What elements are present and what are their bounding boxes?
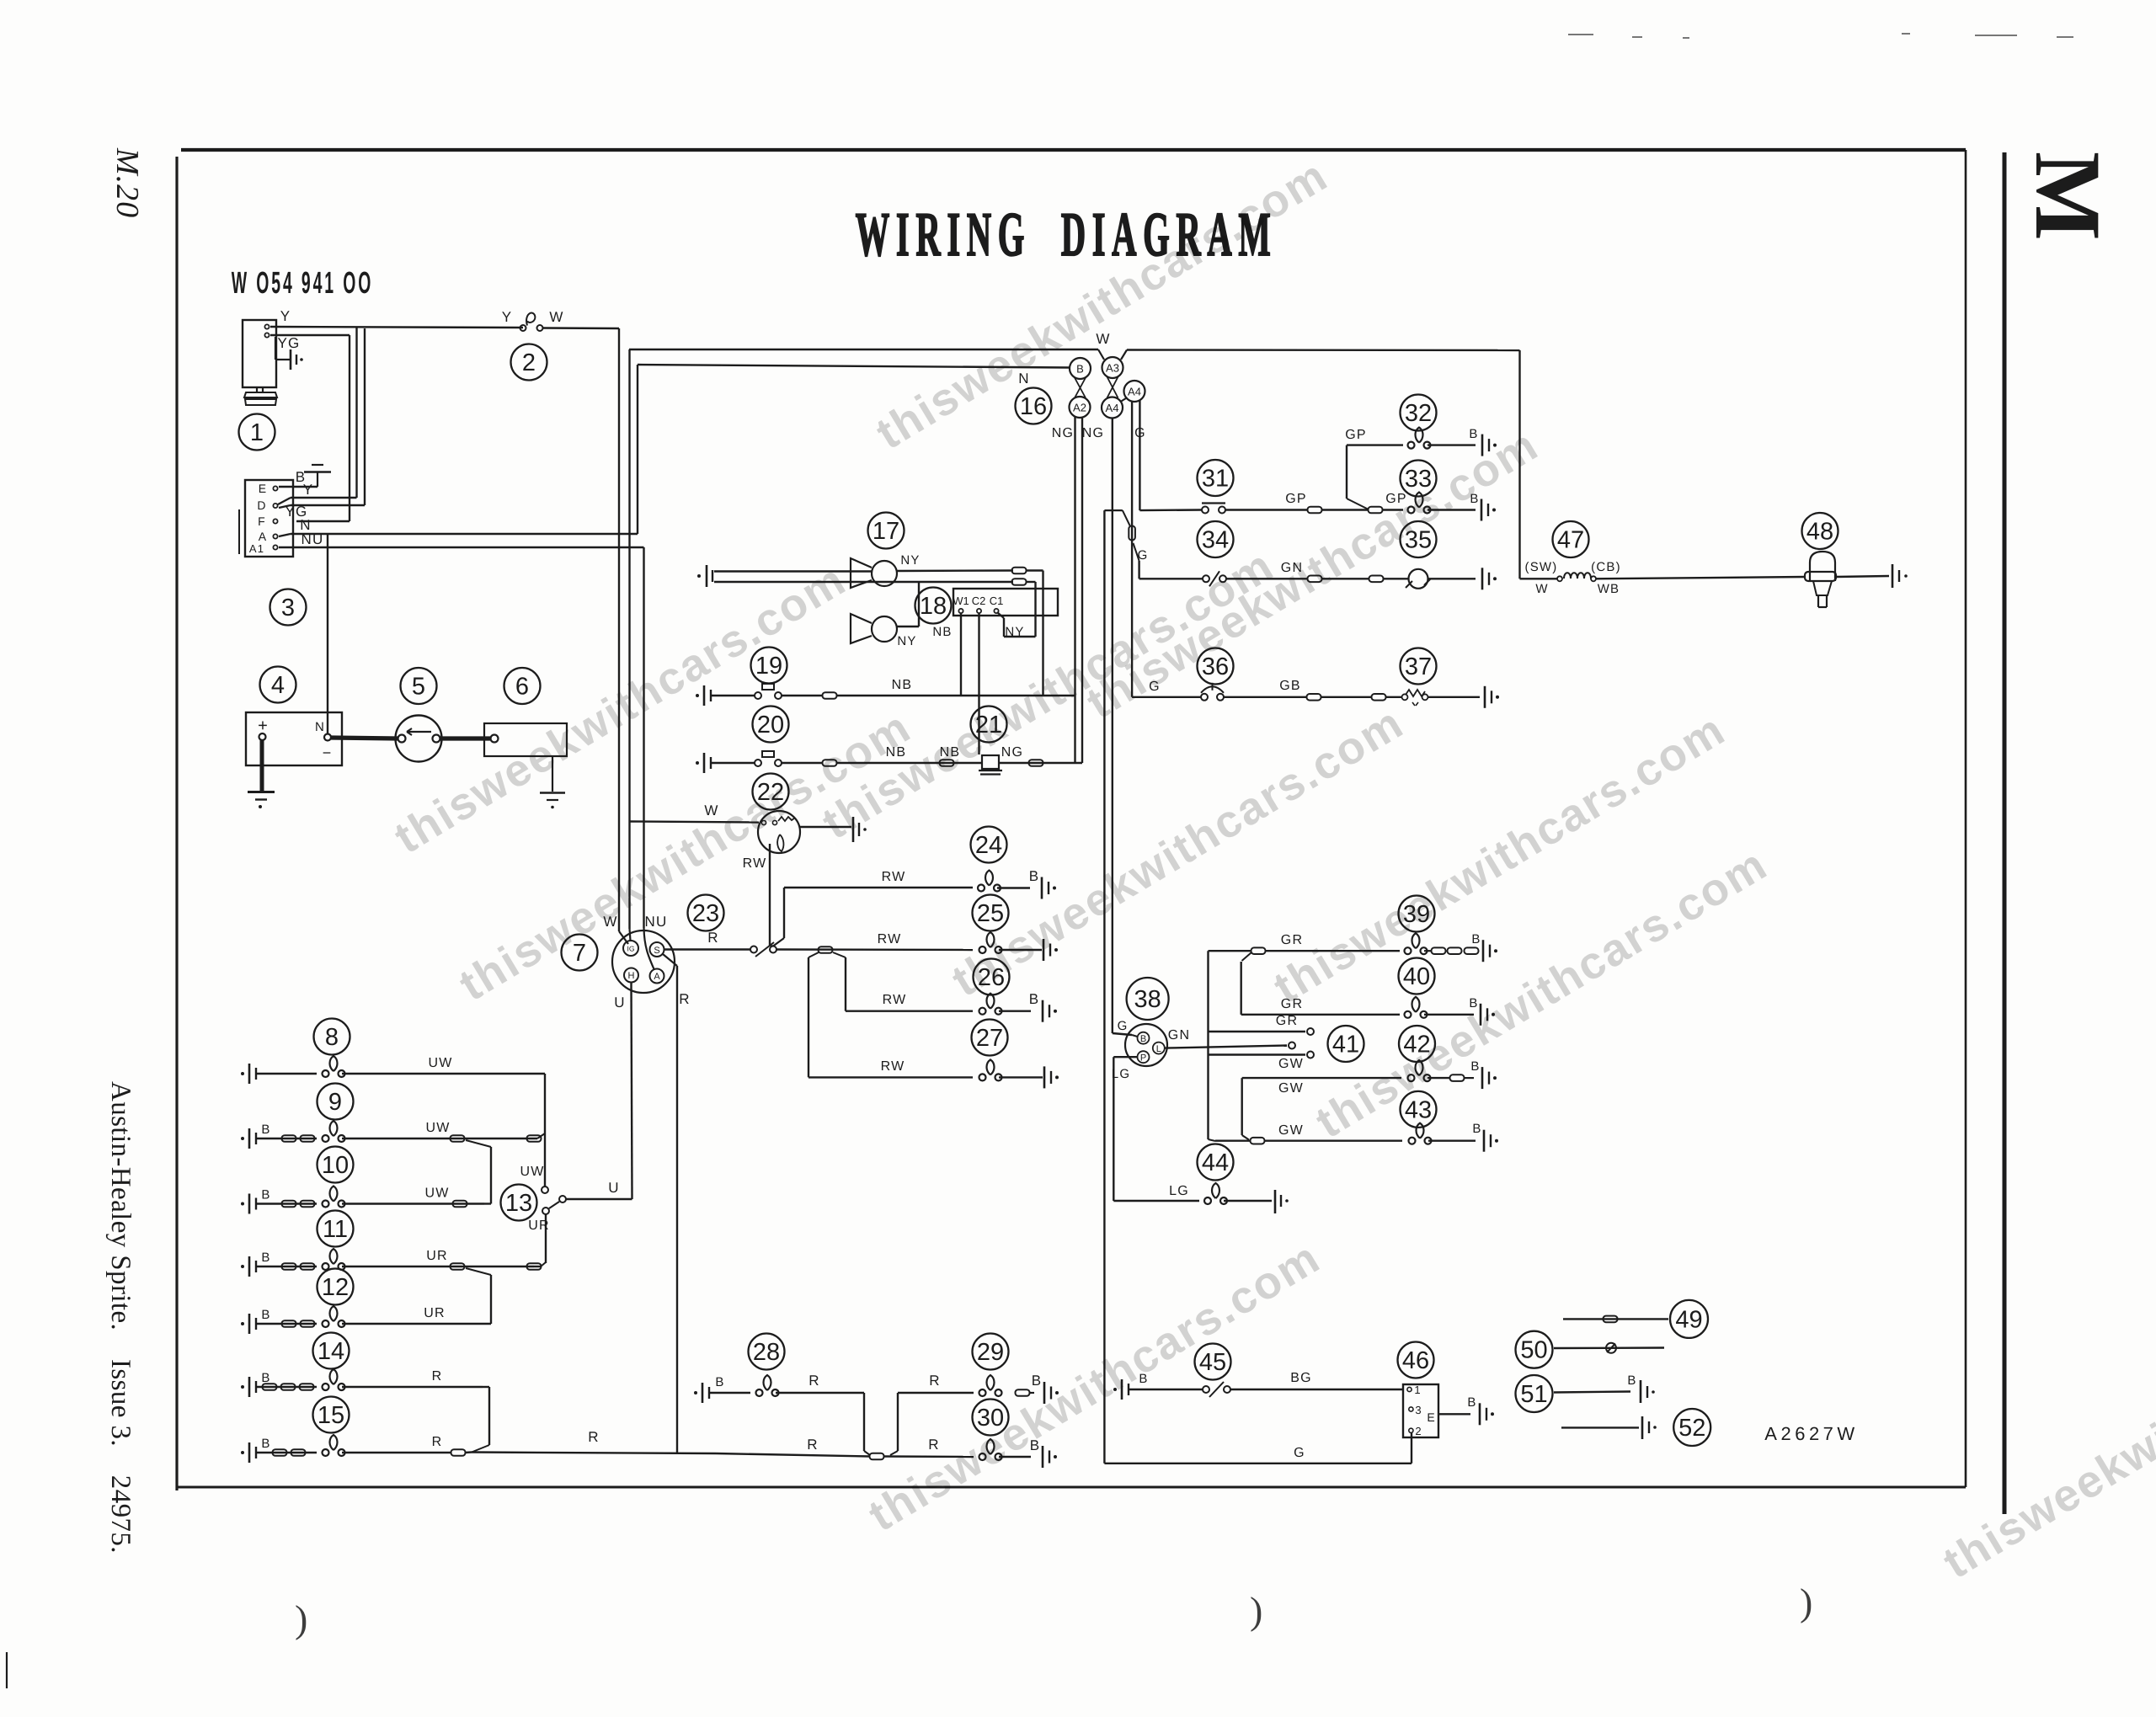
svg-text:34: 34	[1202, 527, 1229, 554]
svg-text:31: 31	[1202, 466, 1229, 493]
svg-text:B: B	[1032, 1373, 1043, 1389]
svg-text:NB: NB	[932, 625, 952, 639]
svg-text:Y: Y	[280, 308, 291, 324]
svg-text:A1: A1	[249, 542, 264, 555]
svg-text:UW: UW	[428, 1056, 452, 1070]
svg-text:19: 19	[755, 653, 782, 680]
svg-text:P: P	[1140, 1053, 1146, 1064]
svg-text:43: 43	[1405, 1096, 1432, 1123]
svg-text:RW: RW	[882, 870, 906, 884]
svg-text:16: 16	[1020, 393, 1047, 420]
svg-text:B: B	[261, 1250, 270, 1265]
svg-text:YG: YG	[278, 335, 301, 351]
svg-text:RW: RW	[883, 993, 907, 1007]
svg-text:B: B	[1627, 1373, 1636, 1388]
svg-text:2: 2	[1415, 1425, 1421, 1437]
svg-text:44: 44	[1202, 1149, 1229, 1176]
svg-text:L: L	[1156, 1044, 1161, 1054]
svg-text:B: B	[1471, 932, 1481, 946]
svg-text:B: B	[261, 1308, 270, 1322]
svg-text:R: R	[807, 1437, 818, 1453]
svg-text:17: 17	[873, 518, 899, 545]
svg-text:NU: NU	[302, 531, 324, 547]
svg-text:41: 41	[1332, 1032, 1359, 1058]
svg-text:E: E	[1427, 1410, 1434, 1424]
svg-text:A3: A3	[1106, 362, 1119, 375]
svg-text:B: B	[261, 1188, 270, 1202]
svg-text:29: 29	[977, 1339, 1004, 1366]
svg-text:45: 45	[1199, 1349, 1226, 1376]
svg-text:7: 7	[573, 940, 586, 967]
svg-text:UW: UW	[425, 1121, 450, 1135]
svg-text:Austin-Healey Sprite. Issue 3: Austin-Healey Sprite. Issue 3. 24975.	[105, 1081, 136, 1554]
svg-text:G: G	[1149, 680, 1161, 694]
svg-text:GP: GP	[1345, 428, 1367, 442]
svg-text:B: B	[1470, 492, 1479, 506]
svg-text:51: 51	[1520, 1381, 1547, 1408]
svg-text:38: 38	[1134, 986, 1161, 1013]
svg-text:13: 13	[505, 1190, 532, 1217]
svg-text:15: 15	[318, 1402, 344, 1429]
svg-text:GR: GR	[1281, 997, 1303, 1011]
svg-text:B: B	[1140, 1034, 1146, 1044]
svg-text:2: 2	[522, 349, 536, 376]
svg-text:RW: RW	[878, 932, 902, 946]
svg-text:B: B	[1469, 427, 1478, 441]
svg-text:GB: GB	[1279, 679, 1301, 693]
svg-text:3: 3	[281, 595, 295, 621]
svg-text:B: B	[715, 1375, 724, 1389]
svg-text:−: −	[323, 744, 332, 761]
svg-text:25: 25	[977, 900, 1004, 927]
svg-text:(SW): (SW)	[1525, 560, 1558, 574]
svg-text:27: 27	[976, 1025, 1003, 1052]
svg-text:B: B	[261, 1437, 270, 1451]
svg-text:W: W	[704, 803, 718, 819]
svg-text:6: 6	[515, 674, 529, 701]
svg-text:H: H	[628, 971, 635, 981]
svg-text:23: 23	[692, 900, 719, 927]
svg-text:D: D	[257, 499, 266, 512]
svg-text:14: 14	[318, 1338, 344, 1365]
svg-text:R: R	[928, 1437, 939, 1453]
svg-text:W1: W1	[953, 595, 969, 607]
svg-text:): )	[295, 1597, 307, 1640]
svg-text:NG: NG	[1082, 426, 1104, 440]
svg-text:W: W	[549, 309, 563, 325]
svg-text:NB: NB	[892, 678, 913, 692]
svg-text:E: E	[259, 482, 268, 495]
svg-text:18: 18	[920, 593, 947, 620]
svg-text:W O54 941 OO: W O54 941 OO	[232, 266, 374, 301]
svg-text:A: A	[259, 530, 268, 543]
svg-text:49: 49	[1675, 1306, 1702, 1333]
svg-text:R: R	[432, 1435, 443, 1449]
svg-text:GR: GR	[1276, 1014, 1298, 1028]
svg-text:NY: NY	[900, 553, 920, 568]
svg-text:4: 4	[271, 672, 285, 699]
svg-text:35: 35	[1405, 527, 1432, 554]
svg-text:A: A	[654, 972, 660, 982]
svg-text:11: 11	[323, 1216, 348, 1243]
svg-text:B: B	[1472, 1122, 1481, 1136]
svg-text:46: 46	[1402, 1347, 1429, 1374]
svg-text:30: 30	[977, 1405, 1004, 1432]
svg-text:NY: NY	[1005, 625, 1024, 639]
svg-text:36: 36	[1202, 653, 1229, 680]
svg-text:NY: NY	[897, 634, 916, 648]
svg-text:3: 3	[1415, 1404, 1421, 1416]
svg-text:37: 37	[1405, 653, 1432, 680]
svg-text:WB: WB	[1598, 582, 1620, 596]
svg-text:B: B	[1470, 1059, 1480, 1074]
svg-text:33: 33	[1405, 466, 1432, 493]
svg-text:): )	[1800, 1581, 1812, 1624]
svg-text:8: 8	[325, 1024, 339, 1051]
svg-text:C2: C2	[972, 595, 986, 607]
svg-text:B: B	[1467, 1395, 1476, 1410]
svg-text:12: 12	[322, 1274, 349, 1301]
svg-text:NG: NG	[1052, 426, 1074, 440]
svg-text:1: 1	[250, 419, 264, 446]
svg-text:GN: GN	[1281, 561, 1303, 575]
svg-text:N: N	[1018, 371, 1029, 387]
svg-text:F: F	[258, 515, 266, 528]
svg-text:C1: C1	[990, 595, 1004, 607]
svg-text:G: G	[1138, 548, 1149, 563]
svg-text:IG: IG	[627, 945, 635, 953]
svg-text:A2627W: A2627W	[1764, 1423, 1858, 1444]
svg-text:LG: LG	[1169, 1184, 1189, 1198]
svg-text:B: B	[1139, 1372, 1148, 1386]
svg-text:B: B	[1469, 996, 1478, 1010]
svg-text:B: B	[1030, 1437, 1041, 1453]
svg-text:UW: UW	[424, 1186, 449, 1201]
svg-text:R: R	[679, 991, 690, 1007]
svg-text:NB: NB	[940, 745, 961, 760]
svg-text:A4: A4	[1106, 402, 1119, 414]
svg-text:40: 40	[1403, 963, 1430, 990]
svg-text:M.20: M.20	[109, 147, 145, 218]
svg-text:48: 48	[1806, 519, 1833, 546]
svg-text:32: 32	[1405, 400, 1432, 427]
svg-text:UW: UW	[520, 1165, 544, 1179]
svg-text:(CB): (CB)	[1591, 560, 1621, 574]
svg-text:R: R	[432, 1369, 443, 1384]
svg-text:S: S	[654, 946, 659, 956]
svg-text:G: G	[1294, 1446, 1305, 1460]
svg-text:NB: NB	[886, 745, 907, 760]
svg-text:RW: RW	[743, 856, 767, 871]
svg-text:W: W	[1535, 582, 1548, 596]
svg-text:LG: LG	[1112, 1067, 1130, 1081]
svg-text:26: 26	[978, 964, 1005, 991]
svg-text:NG: NG	[1001, 745, 1023, 760]
svg-text:B: B	[296, 469, 307, 485]
svg-text:NU: NU	[645, 914, 668, 930]
svg-text:10: 10	[322, 1152, 349, 1179]
svg-text:28: 28	[753, 1339, 780, 1366]
svg-text:A4: A4	[1128, 386, 1141, 398]
svg-text:1: 1	[1414, 1384, 1420, 1396]
svg-text:GW: GW	[1278, 1057, 1304, 1071]
svg-text:G: G	[1118, 1019, 1129, 1033]
svg-text:9: 9	[328, 1089, 342, 1116]
svg-text:R: R	[929, 1373, 940, 1389]
svg-text:22: 22	[757, 779, 784, 806]
svg-text:GP: GP	[1385, 492, 1407, 506]
svg-text:20: 20	[757, 712, 784, 739]
svg-text:52: 52	[1678, 1415, 1705, 1442]
svg-text:GW: GW	[1278, 1123, 1304, 1138]
svg-text:39: 39	[1403, 901, 1430, 928]
svg-text:BG: BG	[1290, 1371, 1312, 1385]
svg-text:W: W	[603, 914, 617, 930]
svg-text:5: 5	[412, 674, 425, 701]
svg-text:50: 50	[1520, 1337, 1547, 1364]
svg-text:M: M	[2015, 152, 2120, 241]
svg-text:GN: GN	[1168, 1028, 1190, 1042]
svg-text:A2: A2	[1073, 402, 1086, 414]
svg-text:U: U	[614, 994, 625, 1010]
svg-text:): )	[1250, 1589, 1262, 1632]
svg-text:B: B	[261, 1122, 270, 1137]
svg-text:UR: UR	[528, 1218, 550, 1233]
svg-text:RW: RW	[881, 1059, 905, 1074]
svg-text:UR: UR	[426, 1249, 448, 1263]
svg-text:47: 47	[1557, 527, 1584, 554]
svg-text:B: B	[1076, 363, 1084, 376]
svg-text:W: W	[1096, 331, 1110, 347]
svg-text:U: U	[608, 1180, 619, 1196]
svg-text:21: 21	[975, 712, 1002, 739]
svg-text:R: R	[808, 1373, 819, 1389]
svg-text:+: +	[258, 717, 268, 735]
svg-text:R: R	[588, 1429, 599, 1445]
svg-text:24: 24	[975, 832, 1002, 859]
svg-text:42: 42	[1403, 1032, 1430, 1058]
svg-text:UR: UR	[424, 1306, 446, 1320]
svg-text:B: B	[1029, 991, 1040, 1007]
svg-text:R: R	[707, 930, 718, 946]
svg-text:GR: GR	[1281, 933, 1303, 947]
svg-text:B: B	[1029, 868, 1040, 884]
svg-text:N: N	[315, 720, 325, 734]
svg-text:GP: GP	[1285, 492, 1307, 506]
svg-text:GW: GW	[1278, 1081, 1304, 1096]
svg-text:Y: Y	[502, 309, 513, 325]
